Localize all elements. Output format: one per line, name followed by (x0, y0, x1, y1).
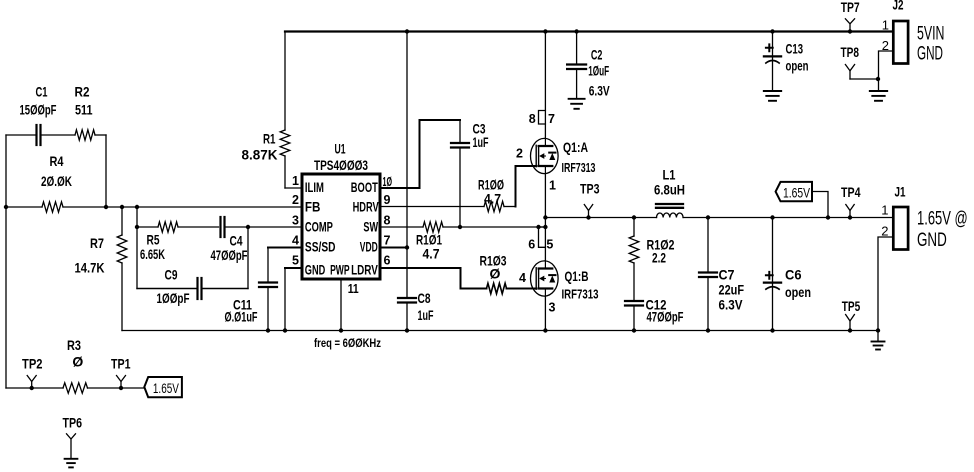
test point TP5 (842, 298, 861, 333)
svg-text:open: open (785, 284, 811, 300)
svg-text:PWP: PWP (330, 263, 350, 278)
svg-text:6.3V: 6.3V (589, 83, 610, 99)
svg-text:4: 4 (292, 234, 299, 248)
capacitor C3 (451, 120, 489, 229)
svg-text:SW: SW (363, 220, 378, 235)
wire left vertical net from C1 branch down to TP2 line (5, 135, 7, 388)
svg-text:1ØuF: 1ØuF (588, 63, 609, 79)
svg-text:8: 8 (384, 214, 391, 228)
transistor Q1:A IRF7313 high-side (516, 138, 596, 192)
wire L1 to output (683, 217, 893, 219)
svg-text:1: 1 (549, 179, 556, 193)
wire C1/R2 branch right vertical (105, 135, 107, 207)
svg-text:C9: C9 (165, 267, 178, 283)
svg-text:HDRV: HDRV (353, 200, 379, 215)
svg-text:TP2: TP2 (22, 356, 43, 372)
wire R100 to Q1:A gate (516, 166, 537, 207)
svg-text:511: 511 (75, 102, 93, 118)
svg-text:IRF7313: IRF7313 (562, 160, 596, 175)
svg-text:TP6: TP6 (63, 415, 83, 431)
svg-text:GND: GND (917, 43, 943, 64)
svg-text:LDRV: LDRV (351, 263, 378, 278)
wire switch node to L1 (545, 217, 656, 219)
svg-text:6: 6 (384, 254, 391, 268)
wire ground rail bottom (122, 330, 878, 332)
svg-text:U1: U1 (335, 142, 346, 157)
svg-text:C6: C6 (785, 267, 802, 283)
test point TP4 (841, 184, 861, 220)
svg-text:6.8uH: 6.8uH (654, 182, 685, 198)
wire FB line to U1 pin 2 (106, 206, 302, 208)
wire J2 pin 2 to ground (879, 51, 894, 91)
wire Q1:A source to SW node (543, 174, 547, 230)
svg-text:TPS4ØØØ3: TPS4ØØØ3 (314, 158, 368, 173)
svg-text:open: open (786, 58, 809, 74)
svg-text:1.65V: 1.65V (153, 380, 179, 396)
wire compensation loop left vertical (135, 207, 139, 289)
ground at J1 pin 2 (872, 331, 885, 350)
svg-text:1uF: 1uF (418, 307, 434, 323)
capacitor C2 (567, 29, 610, 109)
test point TP1 (111, 356, 131, 391)
svg-text:C7: C7 (719, 267, 735, 283)
capacitor C1 (6, 84, 75, 146)
U1 pin numbers (292, 174, 392, 296)
wire U1 GND pin 5 to ground rail (283, 268, 302, 333)
svg-text:TP4: TP4 (841, 184, 861, 200)
connector J1 (893, 184, 908, 250)
svg-text:BOOT: BOOT (351, 180, 379, 195)
svg-text:ILIM: ILIM (305, 180, 324, 195)
wire compensation loop right vertical (247, 227, 249, 289)
svg-text:IRF7313: IRF7313 (562, 287, 599, 302)
svg-text:7: 7 (548, 112, 555, 126)
capacitor C7 (699, 215, 744, 332)
J1 pin numbers (881, 203, 888, 239)
resistor R2 (75, 84, 107, 141)
resistor R4 (6, 153, 106, 212)
svg-text:1.65V @: 1.65V @ (917, 208, 968, 229)
J1 labels (917, 208, 968, 250)
svg-text:TP5: TP5 (842, 298, 861, 314)
wire VDD supply vertical from top rail (380, 29, 409, 298)
svg-text:9: 9 (384, 193, 391, 207)
svg-text:1.65V: 1.65V (783, 185, 810, 201)
svg-text:R4: R4 (50, 153, 64, 169)
svg-text:Q1:A: Q1:A (563, 139, 588, 155)
svg-text:14.7K: 14.7K (75, 260, 105, 276)
op-amp U1 TPS40003 controller IC (302, 142, 380, 280)
wire U1 PWP pin 11 to ground rail (339, 279, 343, 333)
wire drain feed from top rail to Q1:A (543, 29, 547, 138)
resistor R1 (242, 32, 303, 189)
svg-text:J1: J1 (895, 184, 906, 200)
resistor R101 (380, 222, 545, 262)
svg-text:8.87K: 8.87K (242, 147, 278, 163)
transistor Q1:B IRF7313 low-side (519, 261, 599, 315)
capacitor C6 (open, polarized) (764, 215, 811, 332)
power flag 1.65V at output (776, 182, 831, 220)
svg-text:4: 4 (519, 271, 526, 285)
svg-text:7: 7 (384, 234, 391, 248)
test point TP6 with ground (63, 415, 83, 468)
svg-text:2Ø.ØK: 2Ø.ØK (41, 173, 72, 189)
svg-text:GND: GND (305, 263, 326, 278)
svg-text:VDD: VDD (360, 239, 378, 254)
svg-text:L1: L1 (663, 167, 676, 183)
svg-text:C8: C8 (418, 290, 431, 306)
svg-text:J2: J2 (893, 0, 904, 13)
resistor R100 (380, 177, 516, 212)
svg-text:2: 2 (516, 147, 523, 161)
svg-text:6: 6 (528, 238, 535, 252)
svg-text:Ø: Ø (490, 266, 501, 282)
capacitor C8 (398, 290, 434, 333)
capacitor C12 (625, 297, 684, 333)
svg-text:GND: GND (917, 230, 947, 251)
svg-text:2: 2 (882, 38, 889, 53)
test point TP7 (841, 0, 860, 34)
svg-text:11: 11 (348, 282, 359, 296)
svg-text:1uF: 1uF (473, 134, 489, 150)
svg-text:TP1: TP1 (111, 356, 131, 372)
svg-text:6.3V: 6.3V (719, 297, 744, 313)
test point TP3 (580, 181, 600, 220)
svg-text:C2: C2 (591, 47, 603, 63)
svg-text:FB: FB (305, 200, 321, 215)
svg-text:Ø.Ø1uF: Ø.Ø1uF (225, 309, 258, 325)
svg-text:3: 3 (292, 214, 299, 228)
wire SW to Q1:B drain (544, 227, 546, 261)
svg-text:1: 1 (292, 174, 299, 188)
test point TP8 (841, 44, 881, 81)
J2 labels (917, 24, 945, 65)
resistor R3 (6, 337, 144, 393)
capacitor C13 (open, polarized) (764, 29, 809, 101)
wire Q1:B source to ground rail (543, 296, 547, 333)
svg-text:22uF: 22uF (719, 282, 745, 298)
svg-text:47ØØpF: 47ØØpF (211, 247, 248, 263)
J2 pin numbers (882, 17, 889, 53)
svg-text:8: 8 (529, 112, 536, 126)
resistor R7 (75, 207, 127, 331)
capacitor C4 (211, 217, 249, 263)
U1 left pin names (305, 180, 336, 278)
svg-text:1Ø: 1Ø (383, 175, 393, 189)
resistor R5 (137, 222, 219, 262)
node Q1:A package pins 8/7 bracket (529, 111, 555, 127)
svg-text:2.2: 2.2 (652, 250, 666, 266)
node FB junctions (4, 205, 139, 209)
svg-text:2: 2 (292, 193, 299, 207)
svg-text:1: 1 (881, 203, 888, 218)
resistor R103 (380, 253, 536, 294)
svg-text:C1: C1 (36, 84, 48, 100)
svg-text:5: 5 (546, 238, 553, 252)
svg-text:TP8: TP8 (841, 44, 860, 60)
wire BOOT pin 10 loop (380, 120, 460, 188)
svg-text:1ØØpF: 1ØØpF (157, 290, 190, 306)
resistor R102 (629, 215, 674, 301)
capacitor C11 (225, 248, 303, 333)
svg-text:Q1:B: Q1:B (565, 268, 589, 284)
svg-text:5: 5 (292, 254, 299, 268)
svg-text:R7: R7 (90, 235, 104, 251)
svg-text:5VIN: 5VIN (917, 24, 945, 45)
wire J1 pin 2 to ground (876, 237, 894, 333)
test point TP2 (22, 356, 43, 391)
power flag 1.65V at TP1 (144, 377, 182, 397)
svg-text:R2: R2 (75, 84, 90, 100)
svg-text:4.7: 4.7 (423, 246, 440, 262)
svg-text:R3: R3 (67, 337, 81, 353)
svg-text:6.65K: 6.65K (140, 246, 165, 262)
svg-text:R1: R1 (263, 131, 276, 147)
svg-text:15ØØpF: 15ØØpF (20, 102, 57, 118)
svg-text:2: 2 (881, 224, 888, 239)
wire COMP line to U1 pin 3 (246, 225, 302, 229)
svg-text:TP3: TP3 (580, 181, 600, 197)
ground at J2 pin 2 / TP8 (870, 91, 887, 101)
svg-text:Ø: Ø (72, 354, 83, 370)
svg-text:COMP: COMP (305, 220, 333, 235)
node Q1:B package pins 6/5 bracket (528, 225, 553, 252)
svg-text:SS/SD: SS/SD (305, 239, 336, 254)
svg-text:4.7: 4.7 (484, 191, 501, 207)
freq note (314, 336, 381, 350)
svg-text:TP7: TP7 (841, 0, 860, 15)
svg-text:47ØØpF: 47ØØpF (647, 309, 684, 325)
connector J2 (893, 0, 909, 64)
capacitor C9 (137, 267, 248, 307)
svg-text:3: 3 (549, 301, 556, 315)
svg-text:freq = 6ØØKHz: freq = 6ØØKHz (314, 336, 381, 350)
inductor L1 (654, 167, 685, 218)
wire 5V input top rail (285, 30, 893, 32)
svg-text:1: 1 (882, 17, 889, 32)
U1 right pin names (330, 180, 379, 278)
svg-text:C13: C13 (786, 40, 804, 56)
